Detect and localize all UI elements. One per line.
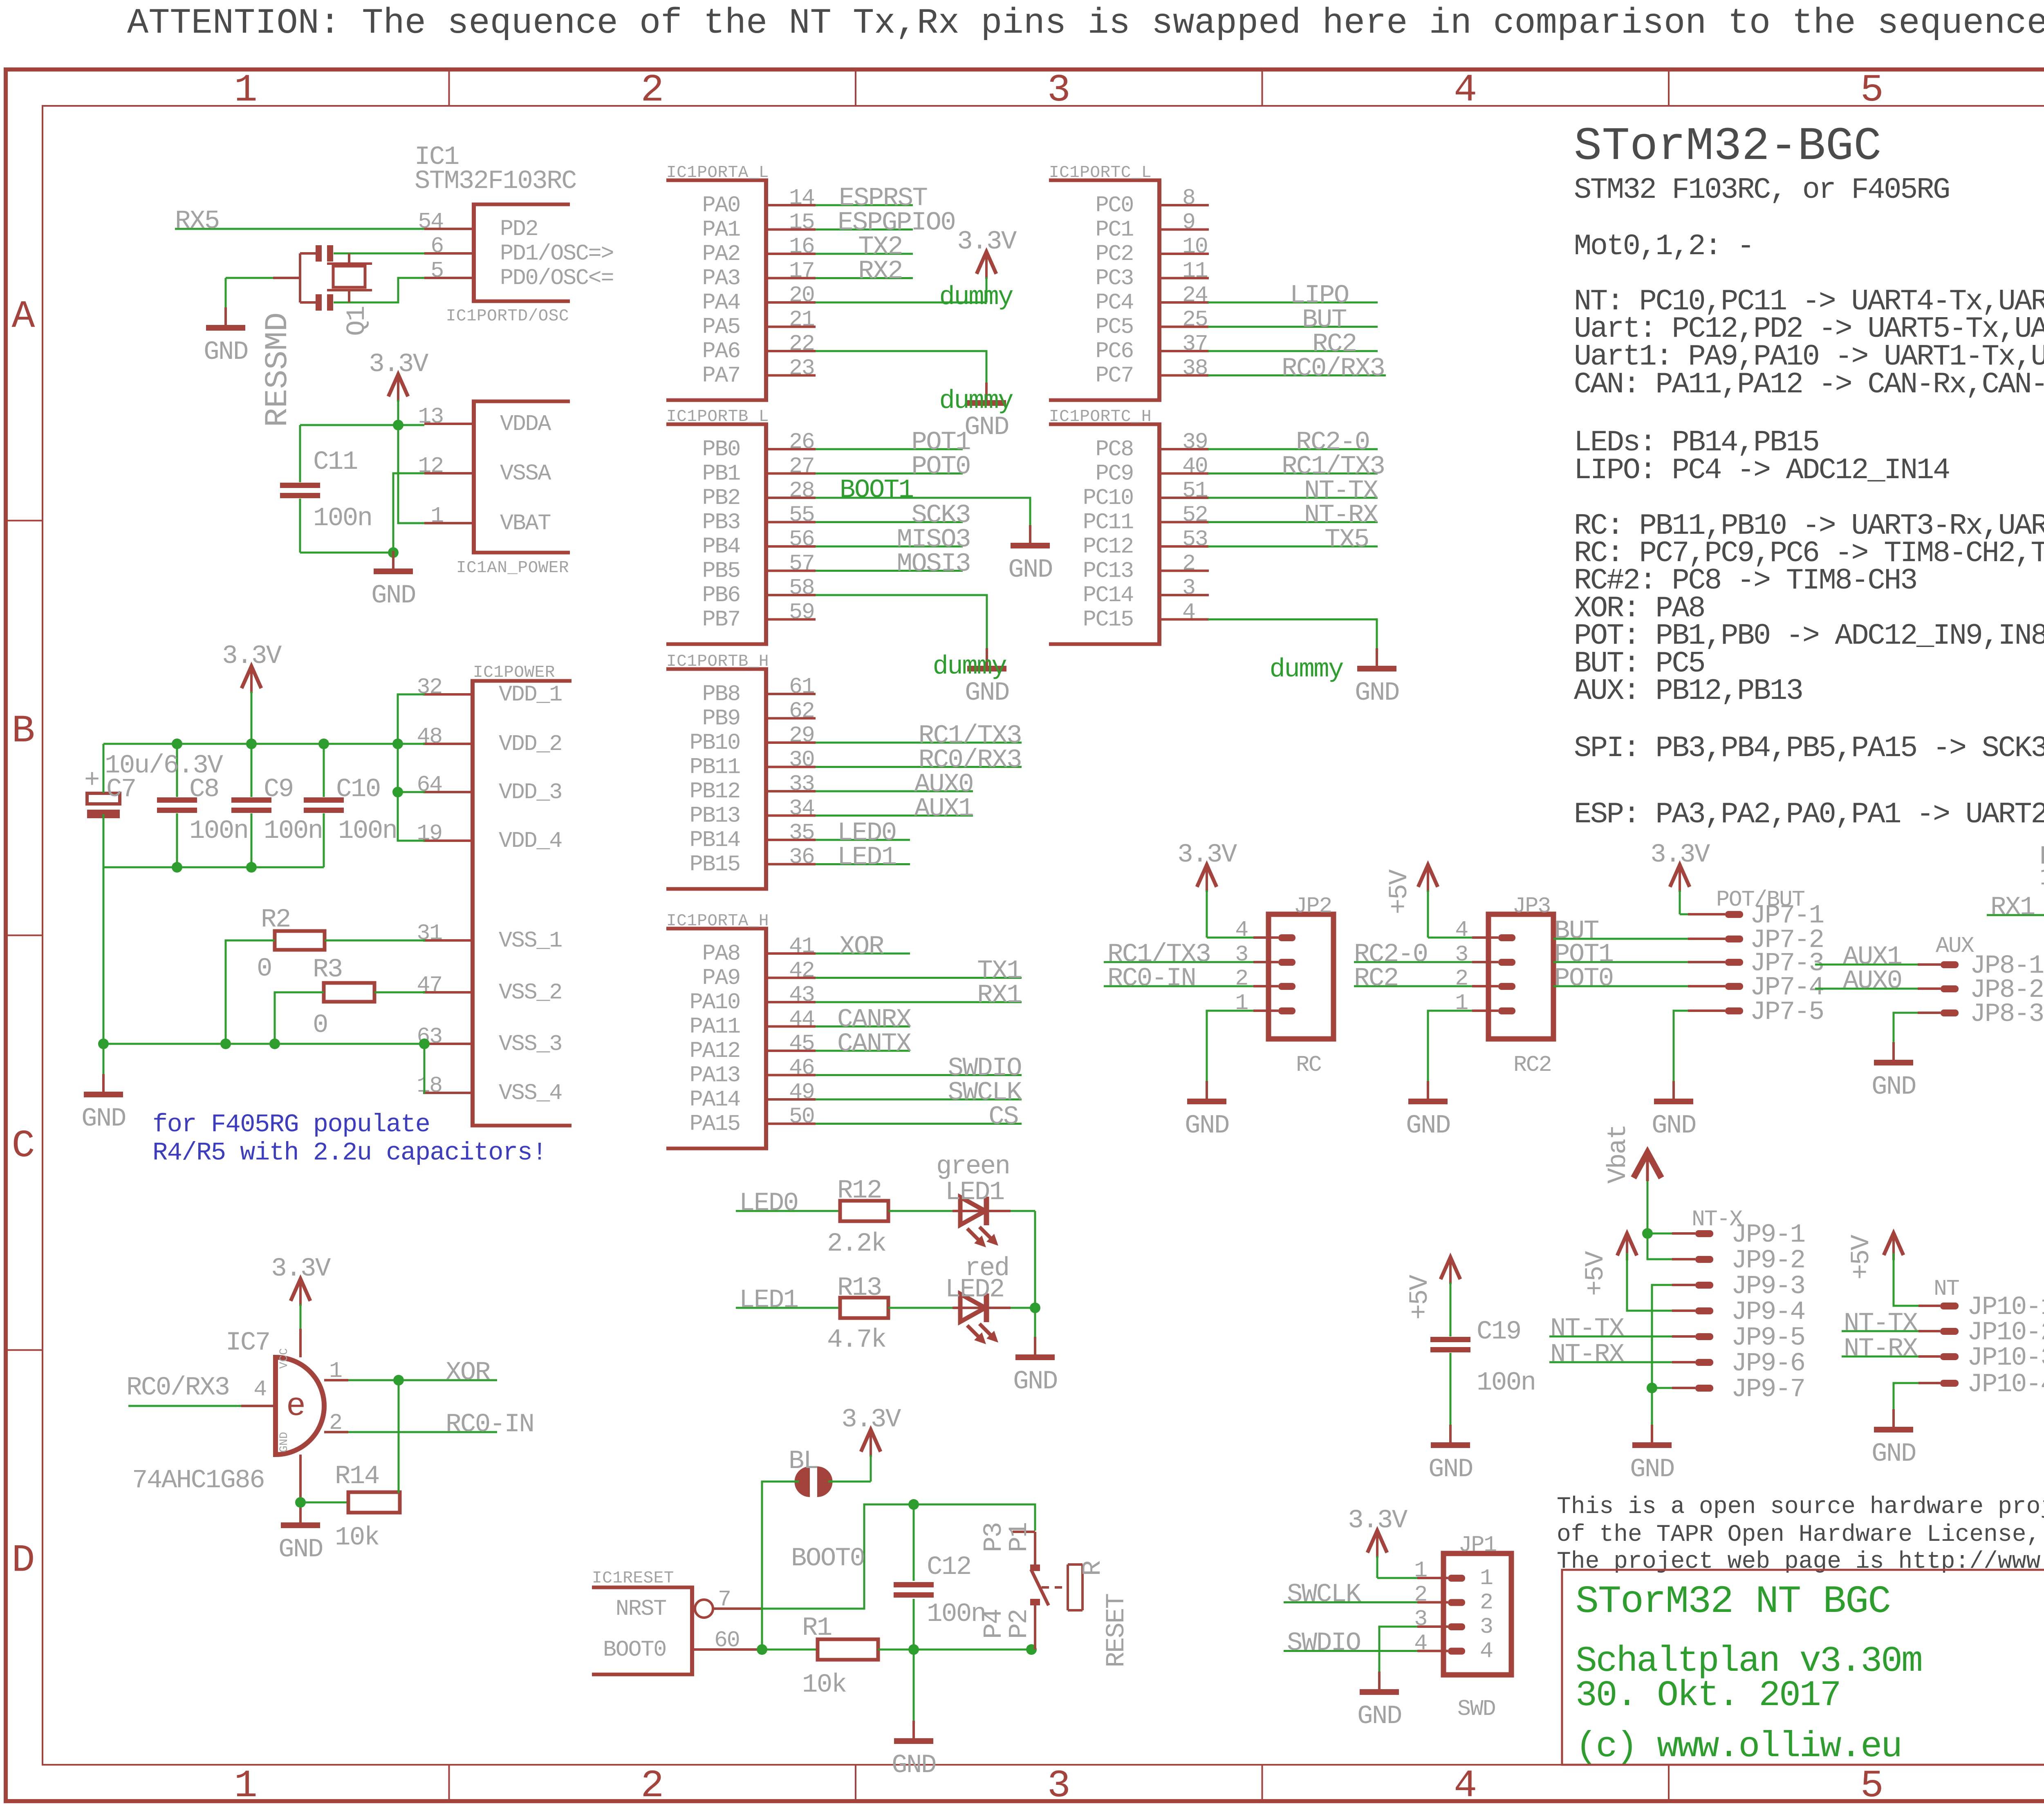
net RC2-0 wire	[1208, 448, 1378, 450]
svg-text:C12: C12	[927, 1553, 971, 1582]
wire VBAT to 3.3V	[398, 425, 424, 523]
net POT1 wire	[816, 448, 963, 450]
supply Vbat arrow	[1634, 1153, 1661, 1178]
svg-text:XOR: XOR	[839, 932, 884, 962]
svg-text:IC1PORTC_L: IC1PORTC_L	[1049, 163, 1152, 182]
net RX2 wire	[816, 277, 913, 279]
svg-text:JP9-2: JP9-2	[1731, 1246, 1805, 1276]
pin 56 (PB4) of IC1	[768, 545, 816, 548]
svg-text:C10: C10	[336, 775, 380, 804]
svg-text:RX2: RX2	[858, 257, 902, 286]
net ESPGPIO0 wire	[816, 228, 913, 231]
wire JP8 pin3 to gnd	[1894, 1013, 1918, 1042]
net LED0 wire	[816, 839, 910, 841]
net ESPRST wire	[816, 204, 913, 206]
svg-text:PC0: PC0	[1096, 192, 1133, 218]
op block IC1PORTD/OSC box	[472, 203, 570, 206]
connector JP1 box	[1443, 1553, 1511, 1675]
svg-text:PB4: PB4	[702, 534, 740, 560]
junction nodes BOOT0 net	[757, 1644, 767, 1655]
svg-text:SWD: SWD	[1457, 1696, 1495, 1722]
wire R14 left lead	[300, 1502, 348, 1504]
frame column ticks bottom	[448, 1765, 450, 1801]
svg-text:57: 57	[789, 551, 814, 577]
pin JP7-4	[1725, 983, 1743, 990]
connector JP2 box	[1269, 914, 1334, 1039]
svg-text:PC14: PC14	[1083, 582, 1133, 608]
svg-text:3: 3	[1455, 942, 1468, 967]
svg-text:1: 1	[234, 1764, 258, 1804]
svg-text:The project web page is http:/: The project web page is http://www.olliw…	[1557, 1549, 2044, 1575]
svg-text:VDD_1: VDD_1	[499, 682, 562, 707]
net RC1/TX3 wire (PB10)	[816, 742, 1022, 744]
svg-text:NRST: NRST	[616, 1596, 666, 1622]
ground symbol BOOT1	[1029, 525, 1031, 546]
svg-text:P2: P2	[1005, 1609, 1034, 1639]
net SWCLK wire	[816, 1099, 1022, 1101]
svg-text:R1: R1	[802, 1614, 831, 1643]
ground symbol JP8	[1892, 1042, 1895, 1063]
svg-text:36: 36	[789, 844, 814, 870]
pin 42 (PA9) of IC1	[768, 977, 816, 979]
pin 45 (PA12) of IC1	[768, 1050, 816, 1052]
svg-text:JP1: JP1	[1459, 1532, 1497, 1558]
svg-text:VSS_1: VSS_1	[499, 928, 562, 953]
svg-text:1: 1	[1414, 1558, 1427, 1583]
svg-text:POT0: POT0	[911, 452, 970, 482]
svg-text:18: 18	[417, 1073, 442, 1099]
svg-text:30. Okt. 2017: 30. Okt. 2017	[1576, 1676, 1840, 1716]
capacitor C10	[304, 797, 344, 803]
pin 32 (VDD_1) of IC1	[423, 693, 471, 696]
pin 13 (VDDA) of IC1	[424, 423, 472, 425]
svg-text:3.3V: 3.3V	[1177, 840, 1237, 870]
svg-text:58: 58	[789, 575, 814, 601]
svg-text:PB13: PB13	[690, 803, 740, 829]
svg-text:6: 6	[430, 233, 443, 259]
svg-text:PB5: PB5	[702, 558, 740, 584]
ground symbol AN_POWER	[392, 551, 394, 571]
svg-text:RC0/RX3: RC0/RX3	[1282, 354, 1384, 384]
net BUT wire to JP7-2	[1553, 938, 1688, 940]
svg-text:59: 59	[789, 600, 814, 625]
ground symbol reset circuit	[912, 1721, 915, 1741]
ground symbol JP1	[1378, 1672, 1381, 1692]
svg-text:RESSMD: RESSMD	[260, 312, 296, 427]
wire R3 left lead	[275, 992, 324, 1044]
junction node JP9-7	[1647, 1383, 1657, 1393]
wire 3.3V rail horizontal	[103, 743, 425, 745]
svg-text:RC0-IN: RC0-IN	[446, 1410, 533, 1439]
svg-text:AUX: PB12,PB13: AUX: PB12,PB13	[1574, 674, 1802, 708]
pin 19 (VDD_4) of IC1	[423, 839, 471, 842]
svg-text:PC15: PC15	[1083, 607, 1133, 633]
svg-text:28: 28	[789, 478, 814, 504]
svg-text:R4/R5 with 2.2u capacitors!: R4/R5 with 2.2u capacitors!	[152, 1138, 547, 1167]
svg-text:SPI: PB3,PB4,PB5,PA15 -> SCK3,: SPI: PB3,PB4,PB5,PA15 -> SCK3,MISO3,MOSI…	[1574, 732, 2044, 765]
svg-text:0: 0	[313, 1011, 327, 1040]
svg-text:GND: GND	[1013, 1367, 1057, 1397]
pin 62 (PB9) of IC1	[768, 717, 816, 720]
pin 35 (PB14) of IC1	[768, 839, 816, 841]
pin 50 (PA15) of IC1	[768, 1123, 816, 1125]
resistor R14	[348, 1492, 400, 1513]
svg-text:LED1: LED1	[837, 843, 896, 873]
svg-text:29: 29	[789, 723, 814, 748]
svg-text:GND: GND	[1652, 1111, 1696, 1141]
svg-text:NT-RX: NT-RX	[1844, 1334, 1918, 1364]
svg-text:dummy: dummy	[939, 387, 1013, 416]
svg-text:2: 2	[1414, 1582, 1427, 1608]
svg-text:LED0: LED0	[739, 1189, 798, 1218]
supply +5V for JP3 pin4	[1418, 865, 1438, 887]
wire R1 right to switch	[878, 1649, 1035, 1651]
net SWCLK wire to JP1 pin2	[1284, 1601, 1417, 1603]
net RX1 wire	[1987, 914, 2044, 916]
ground symbol JP9	[1651, 1425, 1653, 1445]
capacitor C8	[157, 797, 197, 803]
svg-text:12: 12	[418, 453, 443, 479]
junction node VDD_3	[392, 787, 403, 797]
svg-text:100n: 100n	[927, 1600, 986, 1629]
pin 38 (PC7) of IC1	[1161, 374, 1209, 377]
switch RESET (S1)	[1013, 1531, 1035, 1533]
pin 4 of JP2	[1278, 934, 1295, 941]
pin JP7-1	[1725, 911, 1743, 918]
svg-text:42: 42	[789, 958, 814, 984]
svg-text:JP9-7: JP9-7	[1731, 1375, 1805, 1404]
wire R2 left lead	[226, 940, 275, 1044]
wire cap top leads	[103, 744, 105, 793]
svg-text:PC11: PC11	[1083, 510, 1133, 535]
svg-text:R2: R2	[261, 905, 290, 935]
svg-text:4.7k: 4.7k	[827, 1325, 886, 1355]
pin 26 (PB0) of IC1	[768, 448, 816, 450]
op block IC1PORTA_H box	[666, 927, 768, 931]
svg-text:VDDA: VDDA	[500, 411, 551, 437]
net SWDIO wire	[816, 1074, 1022, 1076]
pin 24 (PC4) of IC1	[1161, 301, 1209, 304]
svg-text:PA11: PA11	[690, 1014, 740, 1040]
resistor R13	[840, 1298, 888, 1318]
svg-text:PA0: PA0	[702, 192, 740, 218]
ground symbol JP7	[1672, 1081, 1675, 1101]
svg-text:1: 1	[234, 68, 258, 112]
svg-text:PC12: PC12	[1083, 534, 1133, 560]
supply 3.3V for BL	[861, 1430, 881, 1452]
supply +5V for JP10	[1884, 1233, 1903, 1255]
svg-text:GND: GND	[1406, 1111, 1450, 1141]
svg-text:JP7-5: JP7-5	[1750, 998, 1824, 1027]
pin 2 (PC13) of IC1	[1161, 570, 1209, 572]
svg-text:37: 37	[1182, 331, 1208, 357]
svg-text:PA14: PA14	[690, 1087, 740, 1112]
svg-text:GND: GND	[278, 1535, 323, 1565]
svg-text:GND: GND	[1185, 1111, 1229, 1141]
svg-text:62: 62	[789, 698, 814, 724]
svg-text:5: 5	[1860, 68, 1884, 112]
pin 51 (PC10) of IC1	[1161, 497, 1209, 499]
pin JP9-7	[1695, 1385, 1713, 1392]
pin JP9-3	[1695, 1282, 1713, 1289]
ground symbol LEDs	[1034, 1337, 1036, 1357]
svg-text:STM32F103RC: STM32F103RC	[415, 167, 576, 196]
svg-text:100n: 100n	[189, 817, 248, 846]
ground symbol JP2	[1206, 1081, 1208, 1101]
pin 41 (PA8) of IC1	[768, 952, 816, 955]
ground symbol C19	[1449, 1425, 1452, 1445]
net XOR wire	[816, 953, 910, 955]
svg-text:25: 25	[1182, 307, 1208, 333]
pin 18 (VSS_4) of IC1	[423, 1092, 471, 1094]
svg-text:e: e	[286, 1388, 306, 1425]
wire JP7 pin1	[1680, 913, 1688, 915]
title block left box	[1562, 1570, 2044, 1765]
pin 40 (PC9) of IC1	[1161, 472, 1209, 475]
pin 31 (VSS_1) of IC1	[423, 939, 471, 942]
svg-text:JP10-3: JP10-3	[1967, 1343, 2044, 1373]
svg-text:2: 2	[1235, 966, 1248, 992]
svg-text:C7: C7	[106, 775, 136, 804]
pin 4 (PC15) of IC1	[1161, 618, 1209, 621]
pin 16 (PA2) of IC1	[768, 253, 816, 255]
wire JP2 pin4	[1207, 937, 1253, 939]
wire BL left to BOOT0 net	[762, 1482, 799, 1650]
pin JP9-4	[1695, 1307, 1713, 1314]
pin 1 (VBAT) of IC1	[424, 522, 472, 524]
pin 4 of JP3	[1498, 934, 1515, 941]
ground symbol dummy2	[985, 383, 988, 403]
net BOOT0 wire	[762, 1649, 818, 1651]
pin 6 (PD1/OSC=>) of IC1	[424, 252, 472, 255]
svg-text:VDD_2: VDD_2	[499, 731, 562, 757]
junction node XOR output	[393, 1375, 404, 1385]
wire BL right to 3.3V	[828, 1481, 871, 1483]
wire VSS rail	[103, 1043, 425, 1045]
svg-text:5: 5	[430, 258, 443, 284]
svg-text:P1: P1	[1005, 1523, 1034, 1552]
pin 3 of JP3	[1498, 959, 1515, 966]
pin 46 (PA13) of IC1	[768, 1074, 816, 1077]
wire +5V to JP10-1	[1894, 1253, 1918, 1306]
svg-text:2: 2	[641, 68, 664, 112]
svg-text:2.2k: 2.2k	[827, 1229, 886, 1259]
pin 2 of JP3	[1498, 983, 1515, 990]
op block IC1RESET box	[592, 1586, 694, 1589]
svg-text:3.3V: 3.3V	[1650, 840, 1710, 870]
svg-text:A: A	[11, 294, 35, 338]
svg-text:10k: 10k	[802, 1670, 846, 1700]
svg-text:ESP: PA3,PA2,PA0,PA1 -> UART2-: ESP: PA3,PA2,PA0,PA1 -> UART2-Rx,UART2-T…	[1574, 798, 2044, 831]
svg-text:PA15: PA15	[690, 1111, 740, 1137]
wire +5V to JP9-4	[1627, 1253, 1672, 1311]
pin JP10-1	[1940, 1303, 1959, 1309]
svg-text:IC1PORTA_L: IC1PORTA_L	[666, 163, 769, 182]
svg-text:MOSI3: MOSI3	[896, 550, 970, 579]
net RC1/TX3 wire (PC9)	[1208, 472, 1378, 475]
net SWDIO wire to JP1 pin4	[1284, 1650, 1417, 1652]
wire C11 bottom lead	[299, 499, 301, 553]
svg-text:C11: C11	[313, 448, 357, 477]
svg-text:40: 40	[1182, 454, 1208, 479]
net RC2 wire	[1208, 350, 1378, 352]
wire VDDA rail	[300, 424, 424, 426]
pin 23 (PA7) of IC1	[768, 374, 816, 377]
svg-text:PB10: PB10	[690, 730, 740, 756]
svg-text:R14: R14	[335, 1462, 379, 1491]
pin 59 (PB7) of IC1	[768, 618, 816, 621]
svg-text:3.3V: 3.3V	[841, 1405, 901, 1435]
net AUX1 wire to JP8-1	[1815, 964, 1918, 966]
svg-text:LED1: LED1	[739, 1286, 798, 1315]
wire C11 top lead	[299, 425, 301, 482]
svg-text:5: 5	[1860, 1764, 1884, 1804]
svg-text:PB15: PB15	[690, 852, 740, 877]
wire cap bottom rail	[103, 866, 324, 868]
svg-text:GND: GND	[1428, 1455, 1472, 1484]
wire JP10-4 to gnd	[1894, 1383, 1918, 1409]
svg-text:PC9: PC9	[1096, 461, 1133, 487]
pin JP8-3	[1941, 1009, 1959, 1016]
wire C19 bottom lead	[1450, 1353, 1452, 1425]
svg-text:CS: CS	[988, 1103, 1018, 1132]
svg-text:11: 11	[1182, 258, 1208, 284]
wire LED1 cathode	[1011, 1210, 1035, 1212]
svg-text:dummy: dummy	[1269, 655, 1343, 685]
svg-text:38: 38	[1182, 356, 1208, 381]
svg-text:NT-TX: NT-TX	[1550, 1314, 1625, 1344]
pin JP7-5	[1725, 1007, 1743, 1014]
ground symbol IC7	[299, 1505, 302, 1525]
svg-text:3: 3	[1480, 1614, 1493, 1640]
net NT-RX wire (PC11)	[1208, 521, 1378, 523]
svg-text:for F405RG populate: for F405RG populate	[152, 1110, 430, 1139]
supply 3.3V for IC7	[291, 1279, 310, 1301]
wire VDD trunk vertical	[398, 694, 425, 841]
pin 27 (PB1) of IC1	[768, 472, 816, 475]
pin 1 of JP3	[1498, 1007, 1515, 1014]
wire LED gnd vertical	[1034, 1211, 1036, 1337]
svg-text:ATTENTION: The sequence of the: ATTENTION: The sequence of the NT Tx,Rx …	[127, 4, 2044, 44]
resonator load capacitor top plate pair	[316, 245, 322, 262]
pin 30 (PB11) of IC1	[768, 766, 816, 768]
svg-text:VDD_4: VDD_4	[499, 828, 562, 854]
supply 3.3V for JP7 pin1	[1670, 865, 1690, 887]
svg-text:4: 4	[1454, 68, 1477, 112]
svg-text:dummy: dummy	[932, 652, 1006, 682]
ground symbol dummy4	[1376, 648, 1378, 669]
svg-text:VCC: VCC	[278, 1348, 291, 1369]
resonator load capacitor bottom plate pair	[316, 294, 322, 311]
pin 54 (PD2) of IC1	[424, 228, 472, 230]
pin 8 (PC0) of IC1	[1161, 204, 1209, 206]
svg-text:44: 44	[789, 1007, 814, 1032]
pin 63 (VSS_3) of IC1	[423, 1043, 471, 1045]
svg-text:19: 19	[417, 821, 442, 846]
svg-text:3.3V: 3.3V	[271, 1254, 331, 1284]
pin JP10-2	[1940, 1328, 1959, 1335]
capacitor C12	[894, 1582, 934, 1587]
net LED0 wire	[736, 1210, 840, 1212]
svg-text:51: 51	[1182, 478, 1208, 504]
svg-text:52: 52	[1182, 502, 1208, 528]
pin 1 of JP1	[1448, 1575, 1465, 1582]
wire R13 to LED2	[888, 1307, 955, 1309]
wire bottom rail to gnd	[300, 552, 393, 554]
pin 28 (PB2) of IC1	[768, 497, 816, 499]
svg-text:61: 61	[789, 674, 814, 700]
net NT-TX wire to JP10-2	[1842, 1330, 1918, 1332]
svg-text:CAN: PA11,PA12 -> CAN-Rx,CAN-T: CAN: PA11,PA12 -> CAN-Rx,CAN-Tx	[1574, 368, 2044, 401]
pin 43 (PA10) of IC1	[768, 1001, 816, 1003]
svg-text:PA6: PA6	[702, 338, 740, 364]
ground symbol JP10	[1892, 1409, 1895, 1430]
net LED1 wire	[816, 863, 910, 865]
svg-text:VSS_4: VSS_4	[499, 1080, 562, 1106]
svg-text:VSSA: VSSA	[500, 461, 551, 486]
pin JP9-1	[1695, 1230, 1713, 1237]
svg-text:10: 10	[1182, 234, 1208, 260]
net CANTX wire	[816, 1050, 910, 1052]
pin 10 (PC2) of IC1	[1161, 253, 1209, 255]
svg-text:JP10-4: JP10-4	[1967, 1370, 2044, 1399]
net MOSI3 wire	[816, 570, 963, 572]
svg-text:This is a open source hardware: This is a open source hardware project, …	[1557, 1494, 2044, 1520]
pin 60 BOOT0	[694, 1648, 762, 1651]
svg-text:IC1POWER: IC1POWER	[473, 663, 555, 682]
capacitor C7 (10u/6.3V polarized)	[87, 793, 120, 804]
svg-text:RX1: RX1	[1990, 893, 2035, 922]
svg-text:GND: GND	[1355, 678, 1399, 708]
net POT0 wire	[816, 472, 963, 475]
net NRST wire	[762, 1504, 1035, 1609]
svg-text:JP8-3: JP8-3	[1970, 1000, 2044, 1029]
svg-text:GND: GND	[1357, 1702, 1401, 1731]
net TX2 wire	[816, 253, 913, 255]
svg-text:4: 4	[1480, 1638, 1493, 1664]
pin 5 (PD0/OSC<=) of IC1	[424, 277, 472, 279]
svg-text:14: 14	[789, 185, 814, 211]
wire R3 right lead to VSS_2	[374, 992, 425, 994]
ground symbol for resonator	[224, 307, 227, 328]
pin 3 of JP2	[1278, 959, 1295, 966]
svg-text:PB8: PB8	[702, 681, 740, 707]
net LED1 wire	[736, 1307, 840, 1309]
svg-text:IC1PORTA_H: IC1PORTA_H	[666, 912, 769, 931]
svg-text:1: 1	[329, 1358, 342, 1384]
pin 52 (PC11) of IC1	[1161, 521, 1209, 524]
wire resonator gnd tap	[226, 277, 273, 279]
svg-text:8: 8	[1182, 185, 1195, 211]
net RX1 wire	[816, 1001, 1022, 1003]
svg-text:9: 9	[1182, 210, 1195, 235]
svg-text:1: 1	[1480, 1565, 1493, 1591]
net TX1 wire	[816, 977, 1022, 979]
svg-text:JP9-5: JP9-5	[1731, 1323, 1805, 1353]
svg-text:LED1: LED1	[945, 1178, 1004, 1207]
pin 7 NRST with inversion bubble	[695, 1600, 713, 1618]
svg-text:PB1: PB1	[702, 461, 740, 487]
connector JP3 box	[1488, 914, 1553, 1039]
svg-text:54: 54	[418, 209, 443, 235]
svg-text:VSS_2: VSS_2	[499, 980, 562, 1005]
svg-text:of the TAPR Open Hardware Lice: of the TAPR Open Hardware License, http:…	[1557, 1522, 2044, 1548]
svg-text:26: 26	[789, 429, 814, 455]
svg-text:TX5: TX5	[1325, 525, 1369, 555]
svg-text:(c) www.olliw.eu: (c) www.olliw.eu	[1576, 1727, 1901, 1767]
net NT-TX wire (PC10)	[1208, 497, 1378, 499]
svg-text:JP3: JP3	[1513, 893, 1550, 919]
